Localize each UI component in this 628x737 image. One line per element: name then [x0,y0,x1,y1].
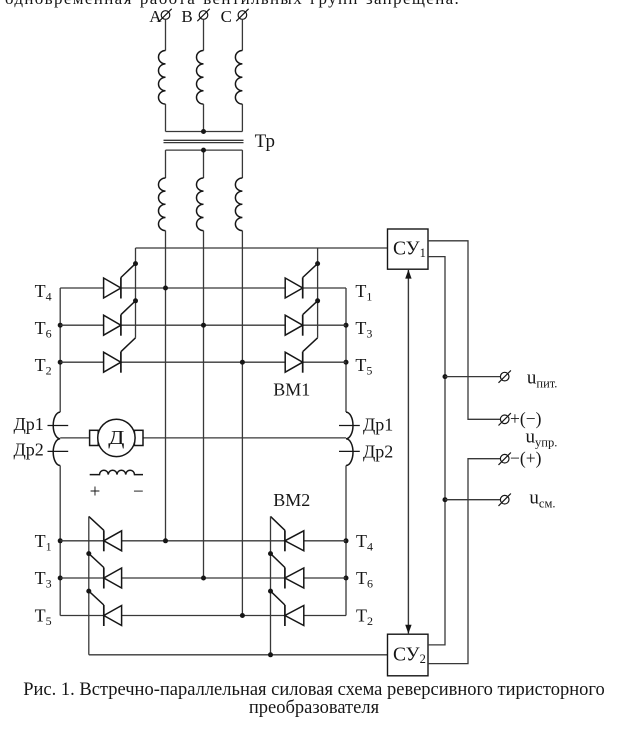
svg-text:Др2: Др2 [363,441,393,461]
svg-text:+: + [90,481,101,502]
svg-text:Т6: Т6 [35,318,52,340]
svg-text:Др1: Др1 [363,414,393,434]
svg-text:uпит.: uпит. [527,368,558,391]
svg-text:uсм.: uсм. [529,487,555,510]
svg-text:Тр: Тр [255,131,275,152]
svg-text:Т1: Т1 [355,281,372,303]
svg-text:Др2: Др2 [14,440,44,460]
svg-text:Т2: Т2 [35,355,52,377]
svg-text:Т1: Т1 [35,531,52,553]
svg-text:−(+): −(+) [510,448,542,468]
svg-text:Т3: Т3 [355,318,372,340]
svg-text:Д: Д [108,428,124,449]
svg-text:ВМ1: ВМ1 [273,380,310,400]
svg-text:uупр.: uупр. [526,426,558,449]
svg-text:C: C [221,7,232,26]
svg-text:A: A [149,7,162,26]
svg-text:B: B [181,7,192,26]
svg-text:Т4: Т4 [356,531,373,553]
svg-text:Т4: Т4 [35,281,52,303]
svg-text:Др1: Др1 [14,414,44,434]
svg-text:Т5: Т5 [355,355,372,377]
svg-text:Т6: Т6 [356,568,373,590]
svg-text:Т3: Т3 [35,568,52,590]
svg-text:Т5: Т5 [35,606,52,628]
svg-text:ВМ2: ВМ2 [273,490,310,510]
svg-text:Т2: Т2 [356,606,373,628]
svg-text:−: − [133,481,144,502]
